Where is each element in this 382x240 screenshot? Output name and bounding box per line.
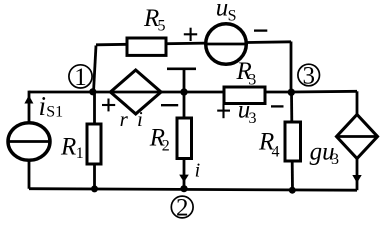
- label uS: [216, 0, 237, 24]
- wire T-bar stub above R2 junction: [183, 68, 186, 92]
- dependent source r·i (diamond, CCVS): [110, 70, 161, 114]
- svg-text:S: S: [228, 7, 237, 24]
- wire gu3 bottom vertical: [356, 157, 359, 190]
- wire gu3 top vertical: [356, 91, 359, 116]
- resistor R1 (box): [87, 124, 101, 164]
- wire left source branch vertical: [28, 91, 31, 189]
- resistor R2 (box): [177, 118, 192, 159]
- wire main horizontal node1 row: [29, 91, 292, 94]
- wire left riser from node 1 up: [94, 46, 97, 93]
- svg-text:u: u: [216, 0, 229, 22]
- svg-text:S1: S1: [46, 103, 63, 120]
- resistor R5 (box): [127, 38, 166, 55]
- label R2: [149, 125, 170, 155]
- wire top horizontal (node1 riser to node3 riser): [96, 42, 291, 45]
- junction node 3 dot: [288, 89, 295, 96]
- label gu3: [310, 138, 339, 168]
- voltage source uS (circle with through-line): [206, 24, 247, 65]
- svg-text:r: r: [120, 107, 129, 131]
- plus sign of u3: [217, 104, 230, 118]
- svg-text:2: 2: [176, 194, 189, 221]
- wire bottom horizontal: [29, 189, 357, 191]
- svg-text:3: 3: [248, 71, 256, 88]
- svg-text:1: 1: [76, 145, 84, 162]
- svg-text:R: R: [60, 133, 76, 160]
- svg-text:3: 3: [302, 62, 315, 89]
- label iS1: [39, 91, 64, 121]
- svg-text:i: i: [39, 91, 47, 121]
- svg-text:3: 3: [249, 110, 257, 127]
- label R1: [60, 133, 84, 162]
- label R5: [143, 5, 166, 35]
- svg-text:5: 5: [158, 17, 166, 34]
- junction node 2 dot (R2 bottom): [180, 185, 187, 192]
- label R4: [258, 129, 280, 161]
- junction T dot (R2 top): [180, 88, 187, 95]
- wire R4 branch vertical: [292, 92, 293, 190]
- node label 3 (circled): [298, 62, 320, 89]
- svg-text:1: 1: [74, 64, 87, 91]
- plus sign of uS: [184, 28, 197, 41]
- wire R1 branch vertical: [93, 92, 96, 189]
- resistor R4 (box): [285, 122, 301, 161]
- svg-text:2: 2: [162, 137, 170, 154]
- junction node 1 dot: [89, 88, 96, 95]
- arrow current i (down, above node 2): [179, 175, 189, 183]
- label u3 (across R3): [238, 97, 257, 127]
- junction R4 bottom dot: [289, 187, 296, 194]
- label r i: [120, 107, 143, 131]
- minus sign of r·i: [161, 104, 178, 106]
- svg-text:i: i: [195, 160, 201, 182]
- svg-text:i: i: [137, 107, 143, 131]
- arrow gu3 current (down): [352, 175, 361, 183]
- node label 1 (circled): [69, 64, 92, 91]
- wire R2 branch vertical: [183, 92, 186, 189]
- minus sign of uS: [254, 29, 267, 31]
- minus sign of u3: [271, 105, 284, 107]
- wire right branch horizontal to gu3: [292, 90, 358, 93]
- arrow current iS1 (up): [24, 95, 33, 103]
- svg-text:3: 3: [331, 151, 339, 168]
- wire right riser down to node 3: [290, 42, 293, 93]
- plus sign of r·i: [102, 99, 115, 112]
- svg-text:4: 4: [272, 143, 280, 160]
- resistor R3 (box): [224, 87, 265, 104]
- T-bar horizontal terminal bar: [167, 68, 196, 71]
- node label 2 (circled): [171, 194, 193, 221]
- junction R1 bottom dot: [91, 185, 98, 192]
- dependent source g·u3 (diamond, VCCS): [337, 115, 378, 159]
- label R3: [236, 58, 257, 88]
- current source iS1 (circle with perpendicular bar): [8, 123, 50, 161]
